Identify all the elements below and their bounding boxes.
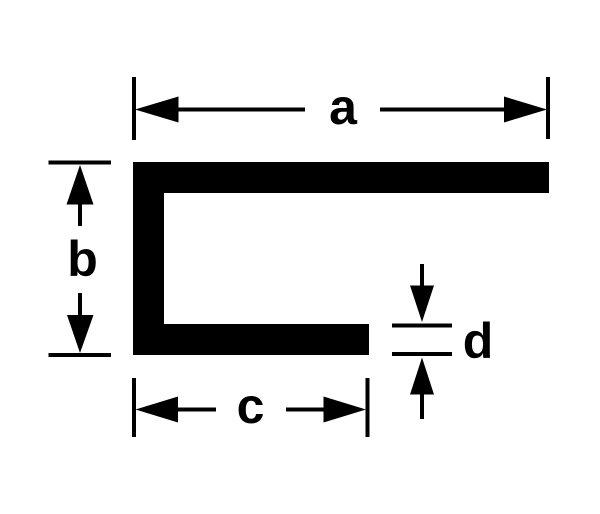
dimension b down arrowhead (67, 315, 94, 353)
dimension c left line (176, 408, 216, 412)
dimension c right line (286, 408, 325, 412)
dimension a right tick (546, 77, 550, 139)
svg-text:a: a (329, 79, 358, 135)
dimension d bottom tick (392, 352, 452, 356)
dimension b up arrowhead (67, 165, 94, 205)
dimension c left arrowhead (136, 397, 179, 423)
svg-text:b: b (67, 231, 98, 287)
dimension a right line (380, 108, 507, 112)
dimension c right arrowhead (324, 397, 367, 423)
dimension d top tick (392, 324, 452, 328)
dimension d up arrowhead (410, 358, 434, 395)
svg-text:c: c (237, 378, 265, 434)
dimension d upper stem (420, 264, 424, 288)
dimension d down arrowhead (410, 286, 434, 323)
dimension b lower stem (78, 293, 82, 316)
svg-text:d: d (463, 313, 494, 369)
profile bottom flange (133, 324, 369, 355)
dimension c right tick (366, 378, 370, 437)
dimension b top tick (49, 161, 112, 165)
dimension d lower stem (420, 392, 424, 419)
profile left web (133, 162, 164, 355)
dimension b upper stem (78, 203, 82, 226)
profile top flange (133, 162, 549, 193)
dimension c left tick (132, 378, 136, 437)
dimension a left tick (132, 77, 136, 140)
dimension a left line (176, 108, 305, 112)
dimension b bottom tick (49, 353, 112, 357)
dimension a right arrowhead (504, 97, 547, 123)
dimension a left arrowhead (135, 97, 179, 123)
